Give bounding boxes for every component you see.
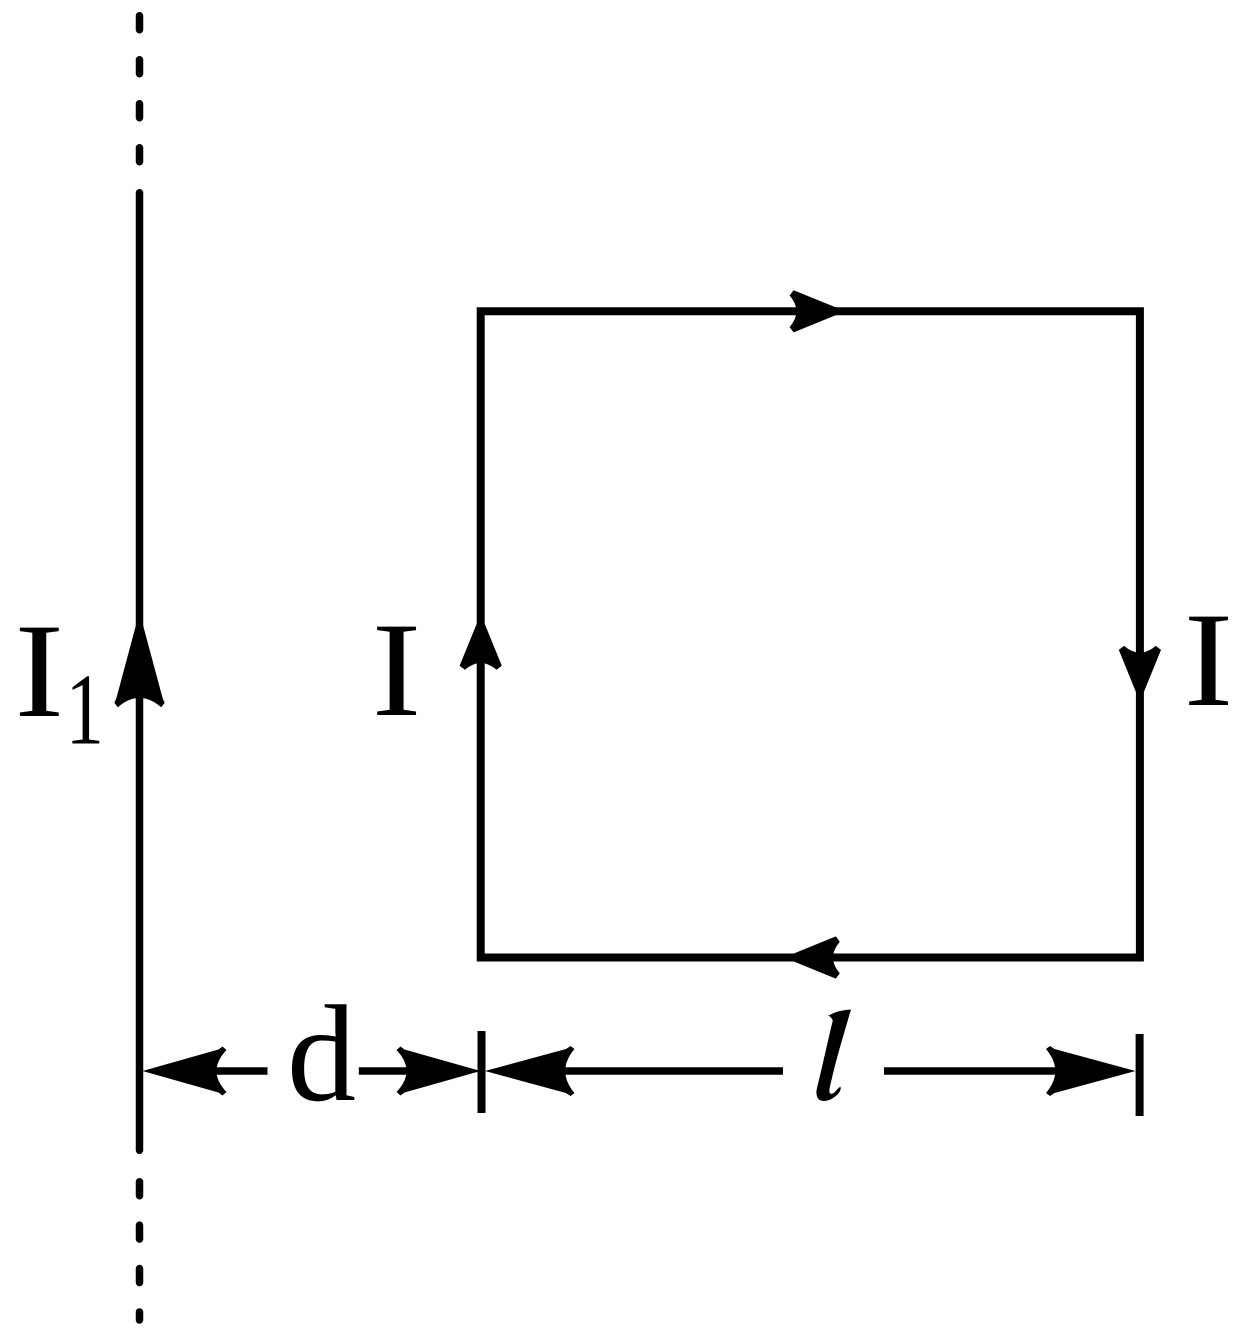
dimension l: right arrowhead at tick (1046, 1046, 1136, 1096)
dimension l: left arrowhead at tick (485, 1046, 575, 1096)
svg-text:I: I (1184, 585, 1233, 734)
svg-text:d: d (287, 977, 356, 1130)
wire: dashed bottom section (136, 1182, 144, 1320)
dimension d: left arrowhead at wire (143, 1047, 227, 1096)
arrowhead bottom side (left) (784, 936, 840, 978)
svg-text:I: I (15, 596, 64, 745)
arrowhead right side (down) (1119, 646, 1161, 702)
arrowhead top side (right) (790, 290, 846, 332)
wire: long straight wire I1, dashed top section (136, 16, 144, 163)
svg-text:1: 1 (66, 653, 104, 766)
wire: solid middle section (136, 193, 144, 1151)
dimension l: line segments (562, 1067, 1062, 1075)
arrowhead left side (up) (460, 614, 502, 670)
arrowhead on wire (current I1 direction, up) (114, 612, 164, 707)
svg-text:I: I (372, 595, 421, 744)
tick mark left (below loop left side) (478, 1031, 486, 1113)
tick mark right (below loop right side) (1136, 1034, 1144, 1116)
dimension d: line segments (214, 1067, 410, 1075)
dimension d: right arrowhead at tick (397, 1047, 481, 1096)
label l (italic) (816, 1010, 851, 1102)
square loop (481, 311, 1140, 957)
